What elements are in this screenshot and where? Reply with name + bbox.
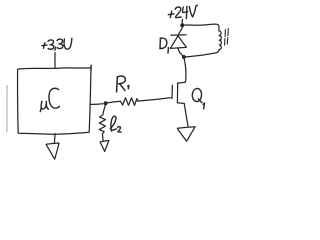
label R1 <box>117 76 129 92</box>
relay coil L1 <box>219 31 222 51</box>
wire node B to diode <box>179 28 183 34</box>
resistor R2 <box>99 106 105 135</box>
+3.3V supply label <box>42 38 72 50</box>
wire source jog <box>178 102 185 105</box>
+24V supply label <box>168 5 197 18</box>
wire node to R1 <box>108 101 121 103</box>
wire source <box>184 104 188 127</box>
node C (drain / coil bottom junction) <box>182 55 186 59</box>
wire +24V stub <box>181 19 183 23</box>
wire +3.3V stub <box>54 53 56 69</box>
microcontroller U1 (µC box) <box>18 68 91 134</box>
node A (gate divider junction) <box>104 101 108 105</box>
resistor R1 <box>120 98 137 106</box>
ground (Q1 source) <box>177 127 195 142</box>
transistor Q1 channel bar <box>176 83 178 103</box>
wire drain <box>184 59 186 82</box>
wire R2 to ground <box>101 134 104 141</box>
label Q1 <box>192 88 204 108</box>
wire R1 to gate <box>138 98 171 102</box>
ground (µC) <box>46 143 59 159</box>
wire µC ground stub <box>53 134 56 144</box>
core line 2 <box>227 29 228 44</box>
node B (top rail junction) <box>180 23 184 27</box>
label D1 <box>160 38 168 53</box>
wire coil top <box>184 24 219 31</box>
transistor Q1 gate bar <box>171 85 173 99</box>
ground (R2) <box>100 140 109 151</box>
wire drain jog <box>178 81 186 84</box>
label µC <box>40 88 59 111</box>
diode D1 <box>171 34 186 36</box>
label R2 <box>110 116 121 132</box>
wire coil bottom <box>186 51 219 57</box>
wire µC output <box>90 103 103 106</box>
core line 1 <box>224 30 227 45</box>
